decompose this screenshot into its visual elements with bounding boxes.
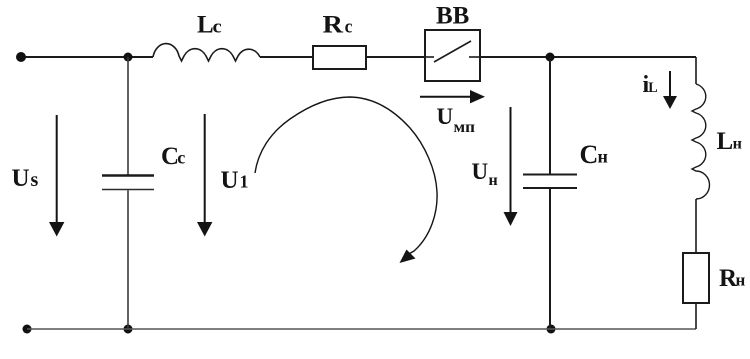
svg-text:U: U — [437, 104, 454, 129]
svg-text:R: R — [323, 11, 345, 38]
svg-text:н: н — [736, 271, 746, 290]
svg-text:BB: BB — [436, 2, 469, 29]
svg-text:s: s — [31, 169, 39, 191]
svg-text:мп: мп — [454, 119, 476, 136]
svg-text:C: C — [580, 140, 599, 169]
svg-text:c: c — [177, 148, 185, 168]
svg-text:c: c — [213, 16, 222, 37]
svg-text:н: н — [489, 172, 498, 189]
svg-text:c: c — [345, 16, 353, 37]
svg-text:L: L — [648, 80, 657, 96]
svg-text:U: U — [472, 159, 489, 184]
svg-text:U: U — [221, 167, 239, 194]
svg-text:1: 1 — [240, 172, 249, 192]
svg-text:н: н — [598, 147, 608, 167]
svg-text:L: L — [197, 11, 214, 38]
svg-text:н: н — [733, 136, 742, 153]
svg-text:L: L — [717, 128, 734, 155]
svg-text:U: U — [12, 165, 30, 192]
